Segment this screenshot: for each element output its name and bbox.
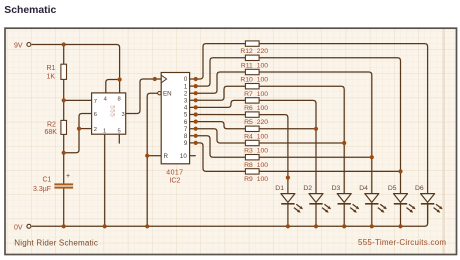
- svg-text:R5: R5: [244, 119, 253, 126]
- wire R4 to LED column 2 junction: [259, 128, 316, 130]
- svg-text:R12: R12: [240, 48, 253, 55]
- svg-text:IC2: IC2: [169, 178, 180, 185]
- wire R8 to LED column 4 junction: [259, 156, 372, 158]
- wire IC2 output 1 to R11: [190, 58, 246, 86]
- resistor R12: [245, 41, 259, 46]
- svg-text:R3: R3: [244, 148, 253, 155]
- svg-text:68K: 68K: [45, 129, 58, 136]
- node R4-D2 column junction: [314, 127, 318, 131]
- node R8-D4 column junction: [370, 155, 374, 159]
- svg-text:555: 555: [108, 105, 115, 117]
- wire R10 to LED column 4: [259, 72, 372, 194]
- wire IC2 output 2 to R10: [190, 72, 246, 93]
- svg-text:100: 100: [257, 133, 269, 140]
- wire R11 to LED column 5: [259, 58, 400, 194]
- node IC1 pins4-8 supply junction: [118, 77, 122, 81]
- svg-text:R11: R11: [241, 62, 253, 69]
- svg-text:100: 100: [257, 77, 269, 84]
- wire IC2 pin10 stub: [190, 155, 196, 157]
- resistor R5: [245, 112, 259, 117]
- svg-text:R9: R9: [244, 176, 253, 183]
- wire R7 to LED column 3: [259, 86, 344, 193]
- svg-text:100: 100: [257, 62, 269, 69]
- node D4 ground junction: [370, 224, 374, 228]
- node pin2-pin6 junction: [77, 127, 81, 131]
- resistor R10: [245, 69, 259, 74]
- wire R1 bottom to R2 top: [63, 79, 65, 120]
- node D5 ground junction: [398, 224, 402, 228]
- node IC2 output 7 pin junction: [194, 127, 198, 131]
- wire IC2 output 0 to R12: [190, 44, 246, 79]
- svg-text:R4: R4: [244, 133, 253, 140]
- svg-text:6: 6: [94, 112, 97, 118]
- node clock wire junction: [153, 77, 157, 81]
- svg-text:555-Timer-Circuits.com: 555-Timer-Circuits.com: [358, 238, 446, 247]
- wire R3 to LED column 3 junction: [259, 142, 344, 144]
- wire D4 cathode to 0V: [371, 204, 373, 227]
- wire IC2 output 9 to R9: [190, 143, 246, 172]
- capacitor C1: [54, 183, 73, 185]
- svg-text:1: 1: [184, 83, 188, 90]
- svg-text:R7: R7: [244, 91, 253, 98]
- svg-text:D2: D2: [303, 185, 312, 192]
- svg-text:4: 4: [184, 105, 188, 112]
- node IC1 pin1 ground junction: [103, 224, 107, 228]
- svg-text:D5: D5: [388, 185, 397, 192]
- 0V ground terminal: [27, 224, 31, 228]
- svg-text:R6: R6: [244, 105, 253, 112]
- wire pin2-6 node down to C1 node: [64, 129, 79, 153]
- svg-text:R1: R1: [47, 65, 56, 72]
- wire IC2 R pin: [147, 155, 161, 157]
- svg-text:100: 100: [257, 148, 269, 155]
- wire IC2 output 5 to R5: [190, 114, 246, 116]
- timer IC1 555: [92, 93, 126, 134]
- node EN-R ground junction: [145, 154, 149, 158]
- node C1 ground junction: [62, 224, 66, 228]
- wire D2 cathode to 0V: [315, 204, 317, 227]
- resistor R3: [245, 140, 259, 145]
- wire 9V rail to IC1 pin8: [32, 45, 120, 94]
- wire R12 to LED column 6: [259, 44, 428, 194]
- resistor R9: [245, 169, 259, 174]
- node D3 ground junction: [342, 224, 346, 228]
- svg-text:C1: C1: [43, 176, 52, 183]
- resistor R1: [61, 64, 67, 79]
- svg-text:6: 6: [184, 119, 188, 126]
- node R9-D5 column junction: [398, 169, 402, 173]
- wire IC1 pin5 stub: [118, 134, 120, 143]
- LED D4: [365, 194, 387, 213]
- wire D1 cathode to 0V: [287, 204, 289, 227]
- node 9V-R1 junction: [62, 42, 66, 46]
- LED D5: [394, 194, 416, 213]
- svg-text:4017: 4017: [166, 169, 183, 176]
- LED D2: [309, 194, 331, 213]
- svg-text:R2: R2: [47, 122, 56, 129]
- node D1 ground junction: [286, 224, 290, 228]
- LED D6: [421, 194, 443, 213]
- resistor R2: [61, 120, 67, 134]
- svg-text:3.3µF: 3.3µF: [33, 186, 51, 193]
- svg-text:R8: R8: [244, 162, 253, 169]
- svg-text:R10: R10: [240, 77, 253, 84]
- node IC2 output 6 pin junction: [194, 120, 198, 124]
- svg-text:1K: 1K: [47, 74, 56, 81]
- node IC2 output 2 pin junction: [194, 91, 198, 95]
- node R3-D3 column junction: [342, 141, 346, 145]
- wire R5 to LED column 1: [259, 115, 288, 194]
- wire R6 to LED column 2: [259, 100, 316, 193]
- resistor R8: [245, 155, 259, 160]
- svg-text:D1: D1: [275, 185, 284, 192]
- node IC2 output 1 pin junction: [194, 84, 198, 88]
- wire branch to IC1 pin4: [106, 80, 120, 94]
- resistor R6: [245, 98, 259, 103]
- svg-text:9V: 9V: [14, 43, 23, 50]
- resistor R11: [245, 55, 259, 60]
- EN pin bubble IC2: [158, 92, 161, 95]
- wire 0V rail: [32, 204, 428, 227]
- svg-text:100: 100: [257, 162, 269, 169]
- svg-text:1: 1: [103, 128, 106, 134]
- svg-text:EN: EN: [163, 91, 172, 98]
- wire IC2 output 7 to R3: [190, 129, 246, 143]
- wire IC2 output 8 to R8: [190, 136, 246, 157]
- wire 9V to R1 top: [63, 45, 65, 65]
- node IC2 output 5 pin junction: [194, 112, 198, 116]
- svg-text:8: 8: [118, 97, 121, 103]
- node IC2 output 9 pin junction: [194, 141, 198, 145]
- svg-text:9: 9: [184, 140, 188, 147]
- svg-text:2: 2: [184, 90, 188, 97]
- resistor R4: [245, 126, 259, 131]
- wire IC1 pin6: [79, 114, 92, 129]
- svg-text:Schematic: Schematic: [4, 5, 56, 16]
- svg-text:3: 3: [184, 98, 188, 105]
- svg-text:R: R: [164, 153, 169, 160]
- svg-text:100: 100: [257, 105, 269, 112]
- LED D3: [337, 194, 359, 213]
- svg-text:Night Rider Schematic: Night Rider Schematic: [14, 238, 98, 247]
- 9V supply terminal: [27, 43, 31, 47]
- wire C1 to 0V rail: [63, 188, 65, 226]
- svg-text:100: 100: [257, 176, 269, 183]
- wire IC1 pin7: [64, 99, 92, 101]
- wire IC2 output 3 to R7: [190, 86, 246, 100]
- wire D5 cathode to 0V: [400, 204, 402, 227]
- LED D1: [281, 194, 303, 213]
- wire R2 bottom to C1: [63, 134, 65, 183]
- wire D3 cathode to 0V: [343, 204, 345, 227]
- svg-text:220: 220: [257, 48, 269, 55]
- wire IC1 pin3 to IC2 clock: [126, 79, 162, 114]
- node R1-R2-pin7 junction: [62, 98, 66, 102]
- wire D6 cathode to 0V: [427, 204, 429, 224]
- svg-text:5: 5: [184, 112, 188, 119]
- wire IC2 output 6 to R4: [190, 122, 246, 129]
- svg-text:8: 8: [184, 133, 188, 140]
- svg-text:7: 7: [184, 126, 188, 133]
- svg-text:2: 2: [94, 127, 97, 133]
- svg-text:10: 10: [180, 153, 187, 160]
- svg-text:7: 7: [94, 99, 97, 105]
- node R2-C1 junction: [62, 151, 66, 155]
- resistor R7: [245, 84, 259, 89]
- wire IC1 pin2: [79, 128, 92, 130]
- svg-text:0: 0: [184, 76, 188, 83]
- svg-text:3: 3: [122, 112, 125, 118]
- wire IC1 pin1 to 0V: [104, 134, 106, 226]
- node IC2 output 4 pin junction: [194, 105, 198, 109]
- svg-text:D6: D6: [415, 185, 424, 192]
- wire R9 to LED column 5 junction: [259, 170, 400, 172]
- node IC2 output 8 pin junction: [194, 134, 198, 138]
- svg-text:100: 100: [257, 91, 269, 98]
- wire IC2 EN to ground: [147, 93, 157, 226]
- svg-text:+: +: [66, 173, 70, 180]
- svg-text:0V: 0V: [14, 224, 23, 231]
- node IC2 output 0 pin junction: [194, 77, 198, 81]
- wire IC2 output 4 to R6: [190, 100, 246, 107]
- svg-text:5: 5: [118, 128, 121, 134]
- node EN ground rail junction: [145, 224, 149, 228]
- counter IC2 4017: [161, 73, 189, 164]
- node D1 column junction: [286, 176, 290, 180]
- svg-text:220: 220: [257, 119, 269, 126]
- clock pin symbol IC2: [161, 75, 166, 83]
- svg-text:D3: D3: [332, 185, 341, 192]
- svg-text:D4: D4: [359, 185, 368, 192]
- node D2 ground junction: [314, 224, 318, 228]
- node IC2 output 3 pin junction: [194, 98, 198, 102]
